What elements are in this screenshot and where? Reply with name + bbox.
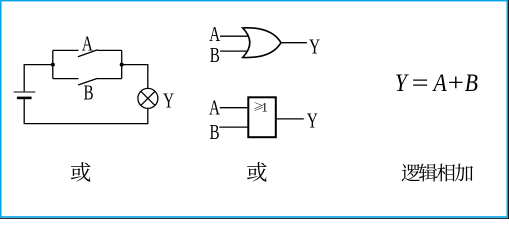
svg-text:B: B xyxy=(210,44,220,67)
wire node 2 to lamp xyxy=(122,65,148,89)
wire input B to U2 xyxy=(219,126,248,128)
svg-text:Y: Y xyxy=(309,35,320,58)
caption 逻辑相加 xyxy=(402,164,420,181)
wire top rail right segment xyxy=(97,49,121,51)
wire left branch vertical (node 1) xyxy=(52,50,54,78)
wire battery+ up to node 1 xyxy=(24,65,53,92)
switch B blade xyxy=(78,78,97,85)
svg-text:A: A xyxy=(82,32,93,55)
or-gate U2 (IEC rectangle) xyxy=(248,97,275,137)
lamp Y (circle with X) xyxy=(138,88,158,108)
junction node 2 xyxy=(120,63,124,67)
caption 或 (left) xyxy=(71,162,91,182)
wire bottom rail left segment xyxy=(53,78,79,80)
svg-text:B: B xyxy=(83,81,93,104)
svg-text:Y: Y xyxy=(163,89,174,112)
wire U2 output xyxy=(276,118,304,120)
wire U1 output xyxy=(281,42,307,44)
wire bottom return: battery- down, across to lamp xyxy=(24,98,148,124)
svg-text:+: + xyxy=(448,69,464,97)
svg-text:1: 1 xyxy=(261,100,268,115)
or-gate U1 (ANSI shape) xyxy=(243,28,281,58)
wire right branch vertical (node 2) xyxy=(121,50,123,78)
wire top rail left segment xyxy=(53,49,79,51)
svg-text:B: B xyxy=(465,70,478,98)
svg-text:A: A xyxy=(209,96,220,119)
wire input A to U1 xyxy=(220,35,249,37)
equation Y = A + B xyxy=(395,69,478,98)
battery BT1 xyxy=(14,92,36,98)
svg-text:=: = xyxy=(412,69,429,97)
switch A blade xyxy=(78,50,98,57)
caption 或 (middle) xyxy=(247,162,267,182)
wire input B to U1 xyxy=(220,50,249,52)
label &#8805;1 (U2 function) xyxy=(255,102,263,111)
junction node 1 xyxy=(51,63,55,67)
svg-text:Y: Y xyxy=(307,109,318,132)
svg-text:A: A xyxy=(432,70,448,98)
svg-text:A: A xyxy=(209,23,220,46)
wire input A to U2 xyxy=(220,107,249,109)
wire bottom rail right segment xyxy=(97,78,122,80)
svg-text:B: B xyxy=(209,120,219,143)
